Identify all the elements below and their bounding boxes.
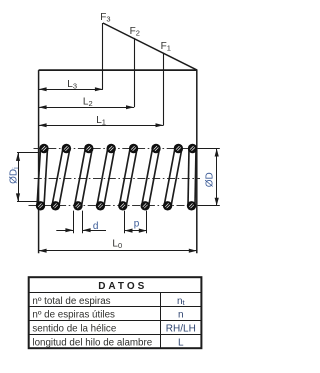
table row separator under header [29, 292, 202, 294]
object: outline box right vertical [196, 69, 198, 253]
object: top horizontal line [39, 69, 197, 71]
spring wire section bottom 7 [163, 201, 172, 210]
spring wire section bottom 1 [36, 201, 45, 210]
dimension line d (arrows outside) [56, 230, 73, 232]
spring wire section bottom 5 [118, 201, 127, 210]
table row separator 4 [29, 334, 202, 336]
spring wire section bottom 6 [141, 201, 150, 210]
spring wire section bottom 4 [96, 201, 105, 210]
force F3 vertical leader [102, 23, 104, 89]
dimension line ODi [18, 153, 20, 202]
spring wire section top 1 [39, 144, 48, 153]
table row separator 3 [29, 320, 202, 322]
spring wire section top 2 [62, 144, 71, 153]
dimension line L2 [39, 107, 134, 109]
spring wire section top 3 [84, 144, 93, 153]
centerline top coil row [34, 148, 197, 150]
force F1 vertical leader [163, 53, 165, 126]
spring coil silhouette lines [37, 149, 41, 206]
spring wire section top 5 [129, 144, 138, 153]
svg-text:p: p [134, 218, 140, 229]
dimension d extension lines [73, 211, 75, 234]
svg-text:ØD: ØD [205, 172, 216, 187]
svg-text:F3: F3 [100, 12, 110, 24]
table DATOS outer border [29, 277, 202, 348]
spring wire section top 7 [174, 144, 183, 153]
table row separator 2 [29, 306, 202, 308]
spring wire section top 4 [107, 144, 116, 153]
svg-text:RH/LH: RH/LH [166, 324, 196, 335]
dimension line OD [216, 149, 218, 206]
spring wire section bottom 2 [51, 201, 60, 210]
svg-text:L1: L1 [96, 115, 106, 127]
dimension OD extension lines [198, 148, 220, 150]
table column separator [160, 292, 162, 348]
svg-text:n: n [178, 310, 184, 321]
dimension line L3 [39, 89, 103, 91]
svg-text:DATOS: DATOS [98, 281, 147, 292]
svg-text:L0: L0 [112, 239, 122, 251]
dimension ODi extension lines [17, 152, 39, 154]
dimension line L0 [39, 250, 197, 252]
svg-text:L2: L2 [83, 96, 93, 108]
spring wire section bottom 8 [187, 201, 196, 210]
spring wire section bottom 3 [73, 201, 82, 210]
svg-text:nº de espiras útiles: nº de espiras útiles [32, 310, 115, 321]
svg-text:F2: F2 [130, 26, 140, 38]
centerline bottom coil row [29, 205, 197, 207]
svg-text:d: d [93, 221, 99, 232]
force F2 vertical leader [134, 38, 136, 107]
object: outline box left vertical [38, 70, 40, 253]
spring wire section top 6 [151, 144, 160, 153]
svg-text:nº total de espiras: nº total de espiras [32, 296, 110, 307]
svg-text:nt: nt [177, 296, 186, 307]
dimension line L1 [39, 125, 164, 127]
svg-text:L: L [178, 337, 184, 348]
dimension p extension lines [124, 211, 126, 234]
dimension line p (arrows inside) [125, 230, 147, 232]
svg-text:L3: L3 [67, 79, 77, 91]
svg-text:longitud del hilo de alambre: longitud del hilo de alambre [32, 337, 152, 348]
force diagonal line [103, 23, 197, 70]
spring wire section top 8 [188, 144, 197, 153]
svg-text:sentido de la hélice: sentido de la hélice [32, 324, 116, 335]
centerline spring axis [34, 178, 200, 180]
svg-text:ØDi: ØDi [9, 167, 21, 184]
svg-text:F1: F1 [161, 41, 171, 53]
